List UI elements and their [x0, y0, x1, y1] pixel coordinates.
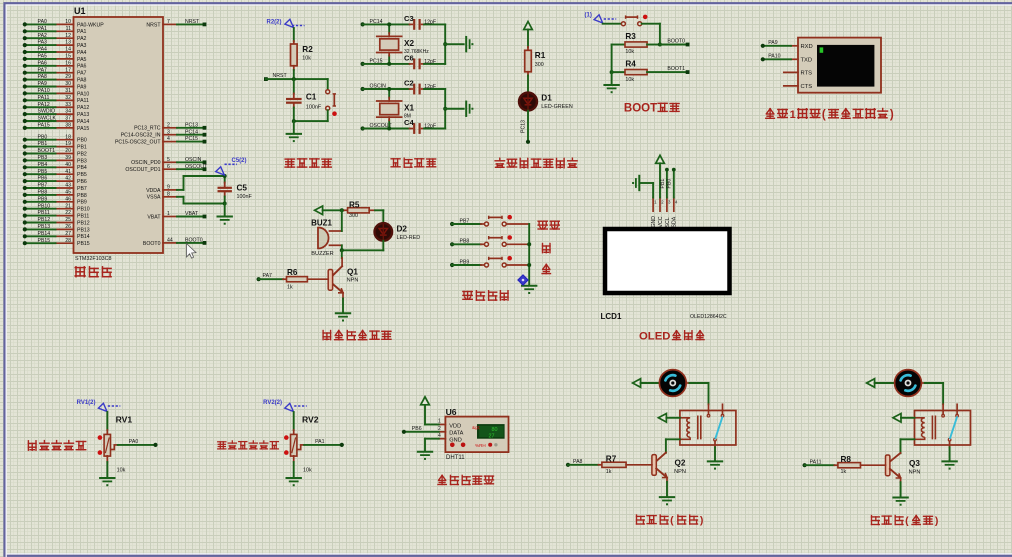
svg-text:10k: 10k	[625, 49, 634, 55]
svg-text:3: 3	[167, 129, 170, 135]
svg-text:28: 28	[65, 238, 71, 244]
svg-text:32.768KHz: 32.768KHz	[404, 49, 429, 55]
svg-text:VBAT: VBAT	[147, 214, 161, 220]
svg-text:29: 29	[65, 74, 71, 80]
pin PA10 (pin 31) with net PA10	[23, 88, 90, 97]
svg-text:PB1: PB1	[38, 141, 48, 147]
pin PB8 (pin 45) with net PB8	[23, 190, 87, 199]
net label NRST terminal	[264, 73, 287, 81]
svg-text:PA10: PA10	[38, 88, 50, 94]
svg-text:NRST: NRST	[146, 22, 161, 28]
svg-text:PB14: PB14	[38, 231, 51, 237]
svg-text:OSCIN: OSCIN	[185, 157, 202, 163]
svg-text:PA0-WKUP: PA0-WKUP	[77, 22, 104, 28]
svg-text:100nF: 100nF	[306, 105, 322, 111]
pin PB4 (pin 40) with net PB4	[23, 162, 87, 171]
svg-text:7: 7	[167, 19, 170, 25]
transistor Q1 NPN	[328, 266, 358, 293]
svg-text:PA15: PA15	[38, 123, 50, 129]
svg-text:TXD: TXD	[801, 57, 813, 63]
svg-text:PA12: PA12	[38, 102, 50, 108]
pin RTS stub	[784, 71, 798, 73]
crystal X1 8M with C2 C4	[361, 78, 474, 133]
relay fan circuit: motor, relay RL1, Q2, R7, PA8	[566, 370, 736, 506]
svg-text:R2: R2	[302, 45, 313, 54]
svg-text:PA15: PA15	[77, 126, 89, 132]
junction R4 left	[610, 70, 614, 74]
svg-text:PA11: PA11	[38, 95, 50, 101]
pin PB0 (pin 18) with net PB0	[23, 134, 87, 143]
svg-text:20: 20	[65, 148, 71, 154]
pin PA15 (pin 38) with net PA15	[23, 123, 90, 132]
svg-text:R7: R7	[606, 455, 617, 464]
reset button	[326, 90, 337, 116]
label gas adjust 可燃气值调节	[218, 441, 279, 449]
svg-text:PB14: PB14	[77, 234, 90, 240]
svg-text:PA5: PA5	[38, 54, 48, 60]
potentiometer RV1 10k net PA0	[77, 400, 158, 486]
DHT11 module U6 body	[445, 407, 508, 461]
svg-text:BOOT1: BOOT1	[38, 148, 56, 154]
key button PB9	[450, 256, 529, 267]
pin PA13 (pin 34) with net SWDIO	[23, 109, 90, 118]
pin PA9 (pin 30) with net PA9	[23, 81, 87, 90]
svg-text:37: 37	[65, 116, 71, 122]
svg-text:12pF: 12pF	[424, 20, 436, 26]
junction BOOT0	[658, 43, 662, 47]
svg-text:GND: GND	[449, 438, 461, 444]
label reset circuit 复位电路	[285, 159, 331, 167]
mouse cursor	[187, 244, 197, 259]
svg-text:SWDIO: SWDIO	[38, 109, 56, 115]
svg-text:NRST: NRST	[185, 19, 200, 25]
net BOOT1 terminal	[667, 66, 689, 74]
svg-text:100nF: 100nF	[237, 194, 253, 200]
svg-text:10: 10	[65, 19, 71, 25]
wire buzzer bottom pin	[330, 245, 342, 250]
svg-text:46: 46	[65, 196, 71, 202]
svg-text:(1): (1)	[585, 13, 592, 19]
svg-text:RV2: RV2	[302, 415, 319, 425]
label indicator 程序运行指示灯	[495, 158, 577, 168]
svg-text:21: 21	[65, 203, 71, 209]
svg-text:(: (	[822, 109, 826, 121]
svg-text:): )	[890, 109, 894, 121]
svg-text:PB15: PB15	[38, 238, 51, 244]
resistor R1 300	[525, 47, 546, 76]
svg-text:PC13: PC13	[185, 122, 198, 128]
svg-text:PB5: PB5	[38, 169, 48, 175]
svg-text:C2: C2	[404, 78, 414, 87]
svg-text:15: 15	[65, 54, 71, 60]
svg-text:VDD: VDD	[449, 423, 461, 429]
svg-text:R8: R8	[841, 455, 852, 464]
pin PA1 (pin 11) with net PA1	[23, 26, 87, 35]
svg-text:PA3: PA3	[77, 43, 87, 49]
svg-text:OSCIN_PD0: OSCIN_PD0	[131, 160, 161, 166]
pin PA5 (pin 15) with net PA5	[23, 54, 87, 63]
wire VDDA to C5 node	[184, 176, 225, 190]
svg-text:1k: 1k	[841, 469, 847, 475]
svg-text:Q3: Q3	[909, 459, 920, 468]
wire buzzer top pin	[330, 210, 342, 231]
wire VSSA to C5 bottom node	[184, 197, 225, 204]
pin RXD net PA9	[761, 40, 798, 48]
svg-text:PA10: PA10	[768, 53, 780, 59]
pin PA12 (pin 33) with net PA12	[23, 102, 90, 111]
svg-text:PB3: PB3	[77, 158, 87, 164]
pin NRST (7) net NRST	[146, 19, 206, 28]
potentiometer RV2 10k net PA1	[263, 400, 344, 486]
svg-text:12pF: 12pF	[424, 59, 436, 65]
pin VDDA (9)	[146, 185, 183, 194]
pin PA7 (pin 17) with net PA7	[23, 67, 87, 76]
svg-text:VCC: VCC	[658, 216, 664, 227]
pin VBAT (1) net VBAT	[147, 211, 206, 220]
svg-text:PA10: PA10	[77, 91, 89, 97]
pin OSCIN_PD0 (5) net OSCIN	[131, 157, 206, 166]
svg-text:CTS: CTS	[801, 84, 813, 90]
LCD1 OLED12864I2C display	[601, 229, 730, 321]
ground BOOT circuit	[604, 85, 618, 93]
pin PB11 (pin 22) with net PB11	[23, 210, 90, 219]
label alarm circuit 声光报警电路	[323, 331, 391, 340]
wire GND to ground DHT11	[425, 439, 439, 452]
svg-text:C5(2): C5(2)	[232, 158, 247, 164]
pin PA11 (pin 32) with net PA11	[23, 95, 89, 104]
pin PC15-OSC32_OUT (4) net PC15	[115, 136, 206, 145]
svg-text:DATA: DATA	[449, 430, 463, 436]
svg-text:PA2: PA2	[38, 33, 48, 39]
svg-text:PB4: PB4	[77, 165, 87, 171]
svg-text:42: 42	[65, 176, 71, 182]
terminal PC13 bottom	[526, 140, 530, 144]
svg-text:PC15-OSC32_OUT: PC15-OSC32_OUT	[115, 140, 161, 146]
ground reset circuit	[287, 134, 301, 142]
wire R1 to D1	[527, 76, 529, 93]
svg-text:PA14: PA14	[77, 119, 89, 125]
svg-text:1k: 1k	[606, 469, 612, 475]
svg-text:PA1: PA1	[315, 439, 325, 445]
svg-text:PB13: PB13	[38, 224, 51, 230]
label smoke adjust 烟雾值调节	[28, 441, 85, 451]
wire NRST row	[266, 78, 328, 80]
wire BOOT left vertical	[611, 45, 613, 85]
svg-text:PB13: PB13	[77, 227, 90, 233]
ground DHT11	[418, 452, 432, 460]
wire SDA net PB0	[667, 168, 676, 198]
label independent keys 独立按键	[463, 291, 508, 300]
pin PB2 (pin 20) with net BOOT1	[23, 148, 87, 157]
svg-text:VDDA: VDDA	[146, 188, 161, 194]
svg-text:PA11: PA11	[77, 98, 89, 104]
svg-text:): )	[700, 515, 704, 527]
svg-text:PA5: PA5	[77, 57, 87, 63]
svg-text:PC14-OSC32_IN: PC14-OSC32_IN	[121, 133, 161, 139]
svg-text:GND: GND	[651, 216, 657, 228]
svg-text:R5: R5	[349, 200, 360, 209]
pin PA8 (pin 29) with net PA8	[23, 74, 87, 83]
svg-text:PB1: PB1	[77, 145, 87, 151]
net label PC13 vertical	[521, 120, 527, 133]
svg-text:DHT11: DHT11	[446, 455, 465, 461]
svg-text:SCL: SCL	[665, 217, 671, 227]
svg-text:PA6: PA6	[38, 60, 48, 66]
svg-text:%RH: %RH	[475, 443, 486, 448]
pin VSSA (8)	[147, 191, 184, 200]
svg-text:LCD1: LCD1	[601, 312, 622, 321]
pin PB10 (pin 21) with net PB10	[23, 203, 90, 212]
svg-text:80: 80	[492, 427, 498, 433]
svg-text:PB8: PB8	[38, 190, 48, 196]
svg-text:PA0: PA0	[129, 439, 139, 445]
svg-text:PA1: PA1	[77, 29, 87, 35]
pin PC13_RTC (2) net PC13	[134, 122, 206, 131]
svg-text:R1: R1	[535, 51, 546, 60]
svg-text:BOOT0: BOOT0	[143, 241, 161, 247]
svg-text:PB11: PB11	[38, 210, 50, 216]
pin PB3 (pin 39) with net PB3	[23, 155, 87, 164]
svg-text:4: 4	[167, 136, 170, 142]
wire button bottom	[294, 110, 328, 121]
svg-text:OLED: OLED	[639, 330, 670, 342]
wire power to R5	[323, 209, 344, 211]
OLED pins GND VCC SCL SDA	[651, 198, 678, 228]
svg-text:OLED12864I2C: OLED12864I2C	[690, 314, 727, 320]
svg-text:VSSA: VSSA	[147, 195, 161, 201]
ground left of OLED	[632, 176, 639, 190]
svg-text:PB2: PB2	[77, 151, 87, 157]
svg-text:19: 19	[65, 141, 71, 147]
probe R2(2)	[267, 19, 305, 27]
svg-text:RV2(2): RV2(2)	[263, 400, 282, 406]
svg-text:PB10: PB10	[38, 203, 51, 209]
pin PB13 (pin 26) with net PB13	[23, 224, 90, 233]
wire keys vertical to ground	[527, 224, 531, 285]
svg-text:PB15: PB15	[77, 241, 90, 247]
svg-text:1: 1	[167, 211, 170, 217]
svg-text:C1: C1	[306, 93, 317, 102]
wire D2 to junction row	[342, 241, 384, 251]
wire VCC to R1	[527, 30, 529, 48]
svg-text:9: 9	[167, 185, 170, 191]
svg-text:12pF: 12pF	[424, 84, 436, 90]
svg-text:34: 34	[65, 109, 71, 115]
label temperature module 温湿度模块	[438, 475, 494, 484]
net BOOT0 wire and terminal	[660, 38, 690, 46]
svg-text:PB6: PB6	[38, 176, 48, 182]
pin PB7 (pin 43) with net PB7	[23, 183, 87, 192]
resistor R6 1k net PA7	[257, 268, 329, 291]
capacitor C1 100nF	[286, 79, 322, 121]
svg-text:38: 38	[65, 123, 71, 129]
label 加	[543, 244, 551, 253]
svg-text:U6: U6	[446, 407, 457, 417]
svg-text:PB3: PB3	[38, 155, 48, 161]
pin PB5 (pin 41) with net PB5	[23, 169, 87, 178]
svg-text:44: 44	[167, 238, 173, 244]
pin DATA (2) net PB6	[402, 426, 446, 434]
pin BOOT0 (44) net BOOT0	[143, 238, 206, 247]
svg-text:PA3: PA3	[38, 40, 48, 46]
svg-text:STM32F103C8: STM32F103C8	[75, 256, 112, 262]
pin PB14 (pin 27) with net PB14	[23, 231, 90, 240]
probe (1)	[585, 13, 617, 24]
wire D1 to PC13 terminal	[527, 111, 529, 142]
svg-text:D1: D1	[541, 94, 552, 103]
svg-text:PB12: PB12	[38, 217, 51, 223]
svg-text:PA2: PA2	[77, 36, 87, 42]
label 减	[542, 264, 550, 273]
capacitor C5 100nF	[218, 176, 253, 204]
svg-text:12pF: 12pF	[424, 124, 436, 130]
svg-text:10k: 10k	[302, 56, 311, 62]
svg-text:NPN: NPN	[909, 469, 921, 475]
svg-text:BOOT1: BOOT1	[667, 66, 685, 72]
svg-text:BOOT0: BOOT0	[185, 238, 203, 244]
pin PB1 (pin 19) with net PB1	[23, 141, 87, 150]
svg-text:PA9: PA9	[77, 84, 87, 90]
svg-text:PB6: PB6	[77, 179, 87, 185]
svg-text:PC15: PC15	[185, 136, 198, 142]
label crystal circuit 晶振电路	[391, 158, 436, 167]
svg-text:RXD: RXD	[801, 44, 813, 50]
svg-text:PB4: PB4	[38, 162, 48, 168]
resistor R3 10k	[612, 32, 660, 55]
svg-text:41: 41	[65, 169, 71, 175]
ground below C5	[218, 217, 232, 225]
pin PA3 (pin 13) with net PA3	[23, 40, 87, 49]
pin TXD net PA10	[761, 53, 798, 61]
wire R2 top	[293, 28, 295, 41]
svg-text:1: 1	[790, 109, 796, 121]
svg-text:PB0: PB0	[667, 179, 673, 189]
boot button	[621, 15, 647, 26]
svg-text:PA0: PA0	[38, 19, 48, 25]
pin PA6 (pin 16) with net PA6	[23, 60, 87, 69]
svg-text:14: 14	[65, 47, 71, 53]
svg-text:NPN: NPN	[347, 277, 359, 283]
svg-text:32: 32	[65, 95, 71, 101]
microcontroller U1 STM32F103C8 body	[74, 6, 164, 262]
svg-text:C5: C5	[237, 183, 248, 192]
wire probe to boot button	[603, 23, 622, 25]
svg-text:RV1: RV1	[116, 415, 133, 425]
pin PB15 (pin 28) with net PB15	[23, 238, 90, 247]
buzzer BUZ1	[311, 218, 334, 257]
svg-text:PA13: PA13	[77, 112, 89, 118]
svg-text:PB0: PB0	[38, 134, 48, 140]
wire C1 bottom to ground	[293, 121, 295, 133]
svg-text:PA4: PA4	[77, 50, 87, 56]
wire node to Q1 collector	[341, 250, 343, 266]
svg-text:SWCLK: SWCLK	[38, 116, 57, 122]
svg-text:45: 45	[65, 190, 71, 196]
svg-text:VBAT: VBAT	[185, 211, 199, 217]
label relay purify 继电器(净化)	[872, 515, 939, 527]
svg-text:8M: 8M	[404, 114, 411, 120]
svg-text:10k: 10k	[117, 468, 126, 474]
resistor R4 10k	[612, 60, 688, 83]
wire C5 bottom to ground	[224, 204, 226, 217]
junction C5 top	[223, 174, 227, 178]
svg-text:PB10: PB10	[77, 207, 90, 213]
svg-text:13: 13	[65, 40, 71, 46]
svg-text:(: (	[905, 515, 909, 527]
svg-text:10k: 10k	[625, 77, 634, 83]
svg-text:PA7: PA7	[38, 67, 48, 73]
crystal X2 32.768KHz with C3 C6	[361, 14, 474, 70]
svg-text:11: 11	[66, 26, 71, 32]
wire Q1 emitter to ground	[342, 293, 344, 313]
svg-text:Q2: Q2	[675, 459, 686, 468]
svg-text:PA7: PA7	[77, 71, 87, 77]
label serial window 串口1窗口（模拟手机端）	[766, 109, 894, 121]
svg-text:300: 300	[535, 62, 544, 68]
svg-text:5: 5	[167, 157, 170, 163]
svg-text:27: 27	[65, 231, 71, 237]
svg-text:300: 300	[349, 213, 358, 219]
pin PB9 (pin 46) with net PB9	[23, 196, 87, 205]
junction C1 bottom	[292, 119, 296, 123]
svg-text:16: 16	[65, 60, 71, 66]
svg-text:PC13: PC13	[521, 120, 527, 133]
svg-text:X1: X1	[404, 104, 414, 113]
wire NRST junction to button	[327, 79, 329, 89]
svg-text:18: 18	[65, 134, 71, 140]
svg-text:8: 8	[167, 191, 170, 197]
pin GND (4)	[438, 433, 445, 439]
ground Q1	[336, 313, 350, 321]
svg-text:&gt;: &gt;	[472, 425, 480, 430]
svg-text:X2: X2	[404, 39, 414, 48]
resistor R2 10k	[291, 41, 314, 79]
svg-text:RV1(2): RV1(2)	[77, 400, 96, 406]
label main-chip 主芯片	[75, 267, 111, 277]
resistor R5 300	[344, 200, 384, 219]
pin PC14-OSC32_IN (3) net PC14	[121, 129, 207, 138]
pin PA14 (pin 37) with net SWCLK	[23, 116, 90, 125]
svg-text:12: 12	[65, 33, 71, 39]
svg-text:BUZ1: BUZ1	[311, 218, 332, 227]
pin PB6 (pin 42) with net PB6	[23, 176, 87, 185]
svg-text:PA8: PA8	[77, 78, 87, 84]
blue diamond marker	[518, 275, 528, 285]
svg-text:SDA: SDA	[672, 216, 678, 227]
svg-text:PB1: PB1	[660, 179, 666, 189]
pin PA2 (pin 12) with net PA2	[23, 33, 87, 42]
pin OSCOUT_PD1 (6) net OSCOUT	[125, 164, 208, 173]
svg-text:PB6: PB6	[412, 426, 422, 432]
pin VDD (1)	[438, 419, 445, 425]
svg-text:PB9: PB9	[38, 196, 48, 202]
svg-text:RTS: RTS	[801, 70, 813, 76]
svg-text:C3: C3	[404, 14, 414, 23]
label 设置	[538, 221, 559, 229]
svg-text:R3: R3	[625, 32, 636, 41]
power arrow OLED VCC	[656, 155, 665, 197]
svg-text:40: 40	[65, 162, 71, 168]
svg-text:10k: 10k	[303, 468, 312, 474]
svg-text:6: 6	[167, 164, 170, 170]
LED D2 LED-RED	[375, 223, 421, 241]
svg-text:PA6: PA6	[77, 64, 87, 70]
svg-text:PB7: PB7	[77, 186, 87, 192]
svg-text:BUZZER: BUZZER	[311, 251, 333, 257]
label OLED显示屏	[639, 330, 704, 342]
wire OLED GND to ground	[640, 183, 653, 198]
svg-text:31: 31	[65, 88, 71, 94]
